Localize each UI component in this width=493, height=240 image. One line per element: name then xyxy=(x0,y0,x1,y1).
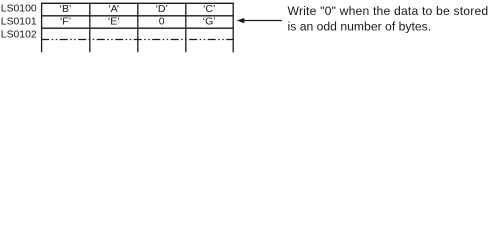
wire table top border xyxy=(41,2,234,4)
wire table row divider 2 xyxy=(41,27,234,29)
svg-text:LS0100: LS0100 xyxy=(1,4,37,15)
wire table vertical 4 xyxy=(185,3,187,53)
svg-text:LS0101: LS0101 xyxy=(1,16,37,27)
svg-text:‘D’: ‘D’ xyxy=(156,3,168,15)
wire table vertical 3 xyxy=(137,3,139,53)
wire table row divider 1 xyxy=(41,15,234,17)
wire continuation dash-dot line xyxy=(41,39,234,41)
arrow callout shaft xyxy=(244,20,282,22)
svg-text:Write "0" when the data to be: Write "0" when the data to be stored xyxy=(288,4,489,18)
wire table vertical 2 xyxy=(89,3,91,53)
svg-text:0: 0 xyxy=(159,16,165,28)
svg-text:‘A’: ‘A’ xyxy=(108,3,119,15)
svg-text:LS0102: LS0102 xyxy=(1,29,37,40)
svg-text:‘C’: ‘C’ xyxy=(203,3,215,15)
svg-text:‘G’: ‘G’ xyxy=(203,16,216,28)
svg-text:‘B’: ‘B’ xyxy=(60,3,72,15)
wire table vertical right xyxy=(232,3,234,53)
svg-text:is an odd number of bytes.: is an odd number of bytes. xyxy=(288,20,432,34)
svg-text:‘F’: ‘F’ xyxy=(60,16,71,28)
wire table vertical left xyxy=(41,3,43,53)
arrow callout head xyxy=(237,18,245,23)
svg-text:‘E’: ‘E’ xyxy=(108,16,120,28)
